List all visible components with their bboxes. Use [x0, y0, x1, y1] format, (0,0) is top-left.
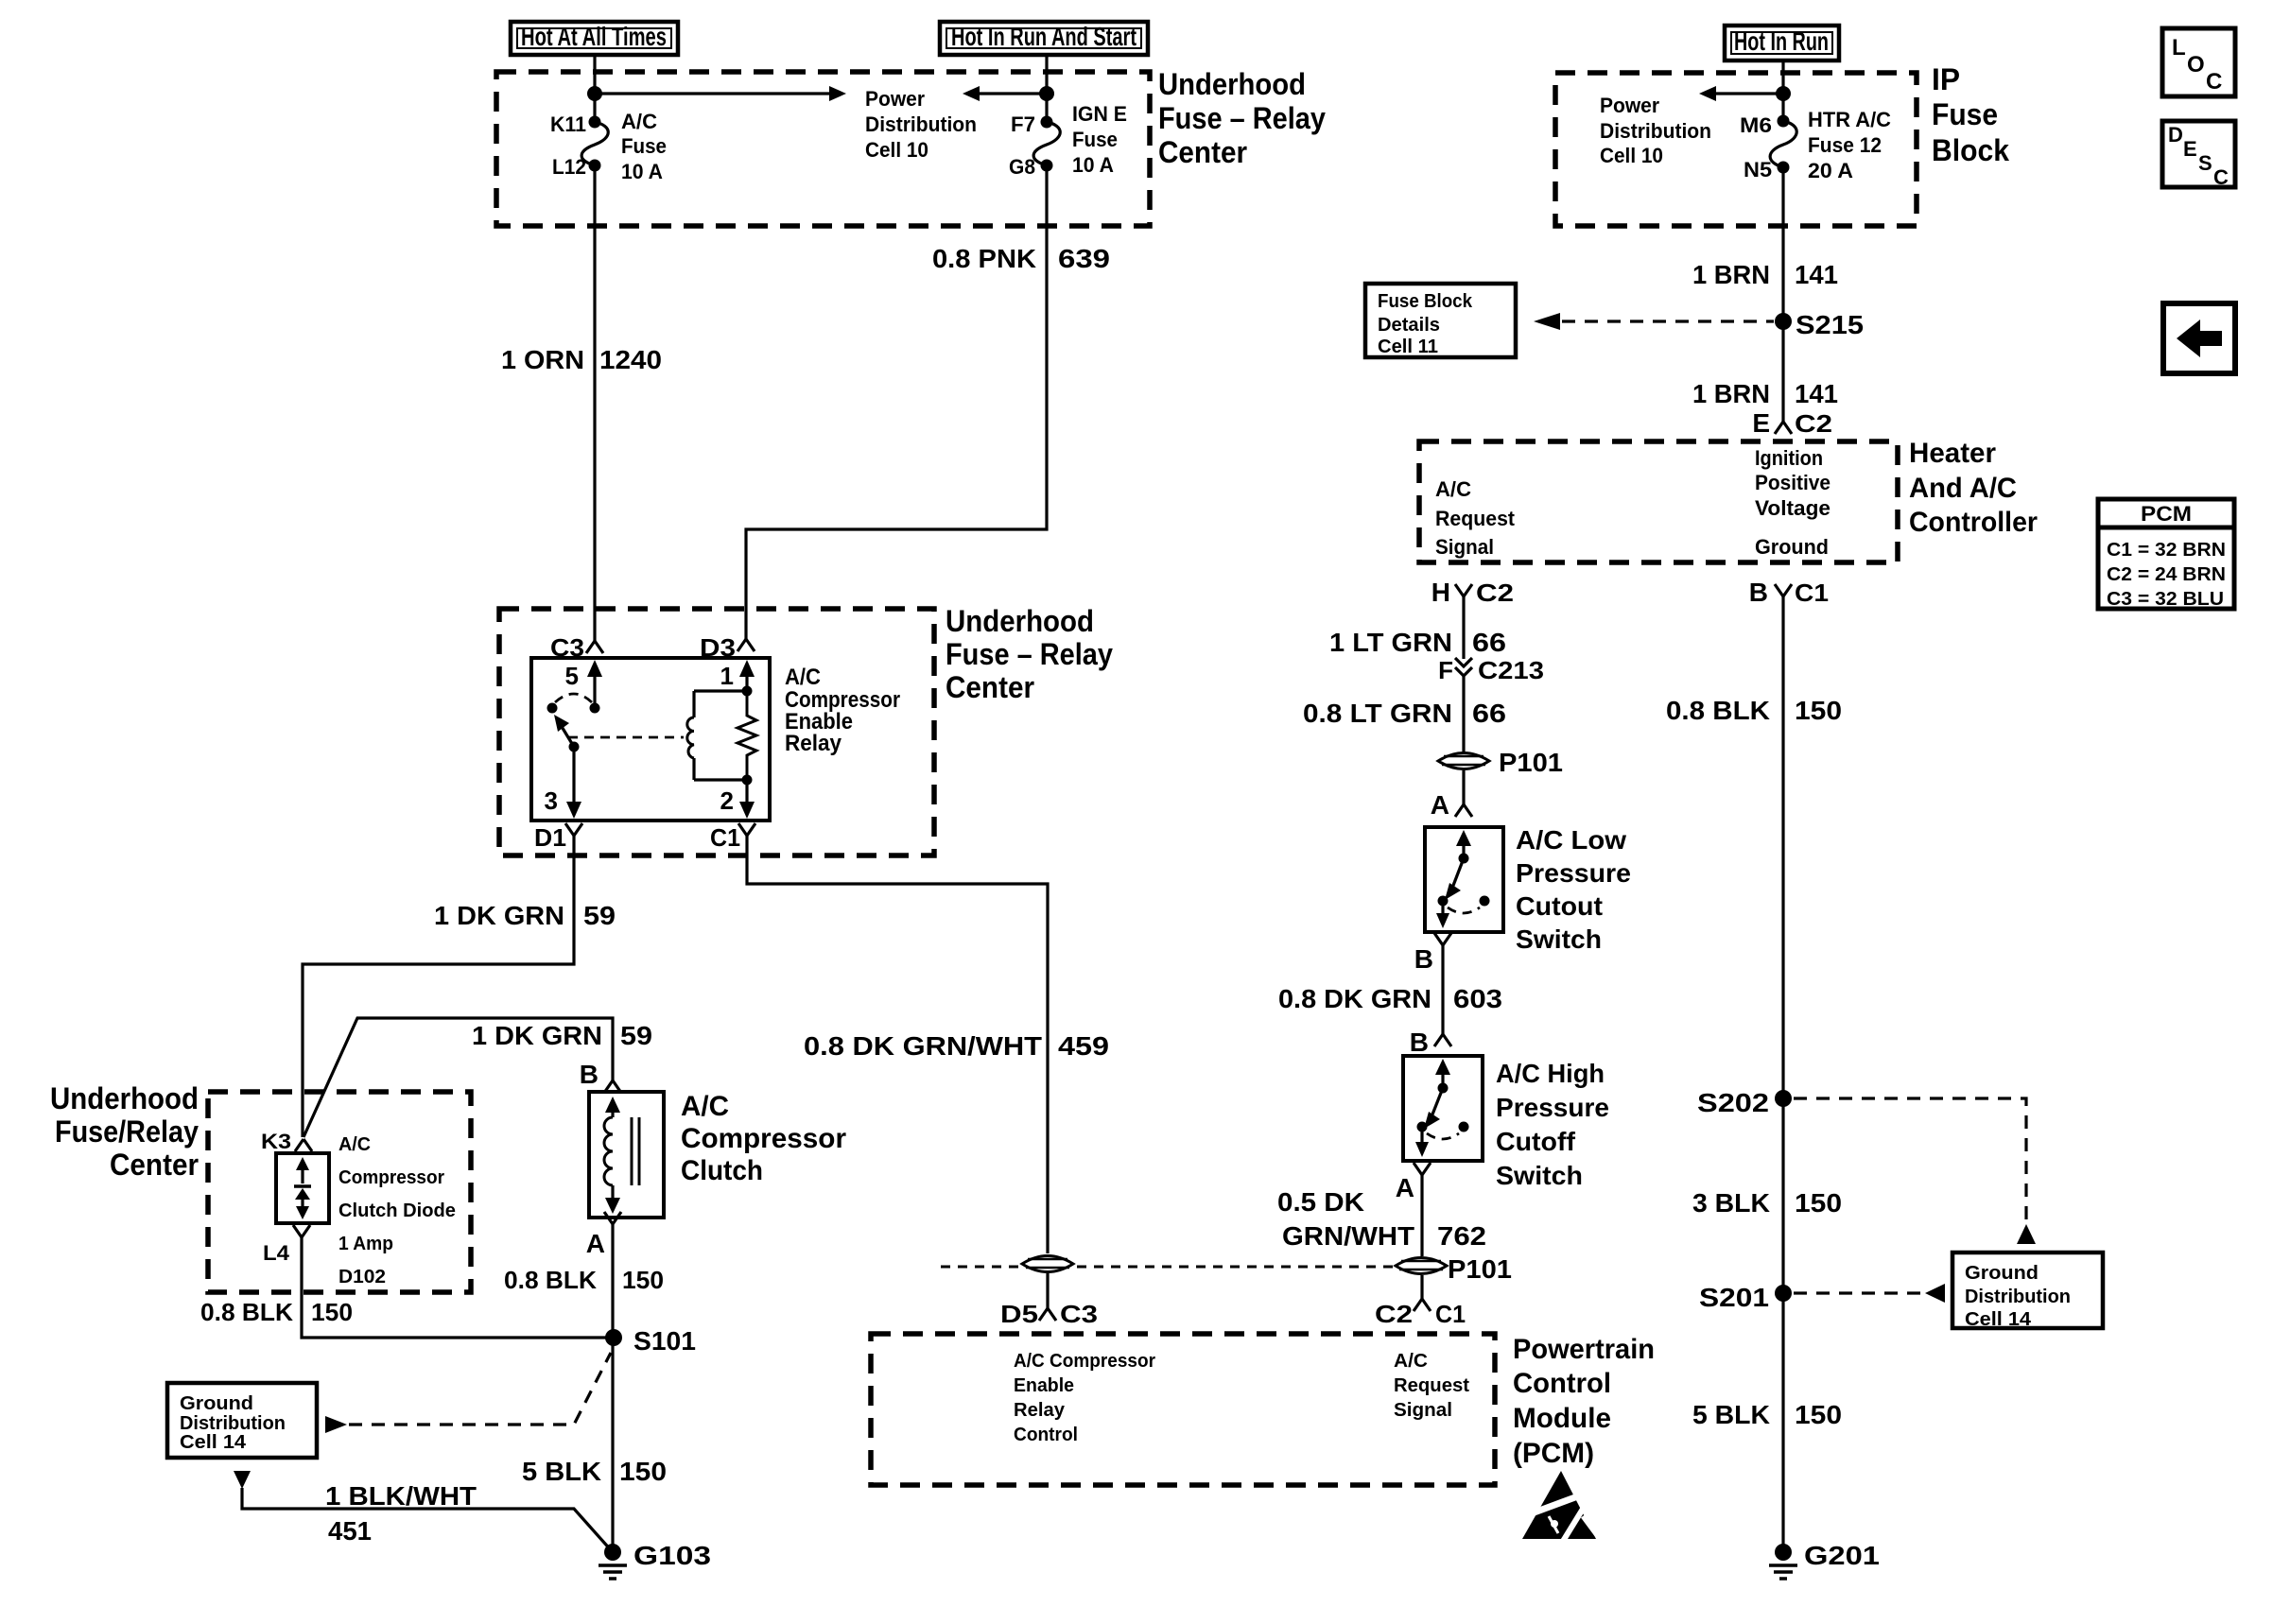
svg-text:E: E [2183, 137, 2197, 161]
svg-text:150: 150 [1795, 1188, 1842, 1218]
ground G201 [1769, 1541, 1880, 1579]
svg-text:Fuse – Relay: Fuse – Relay [1158, 101, 1326, 135]
legend box PCM connectors [2098, 499, 2234, 610]
svg-text:A/C: A/C [681, 1091, 729, 1122]
svg-text:Control: Control [1513, 1368, 1611, 1399]
connector A below clutch [586, 1212, 621, 1258]
wire IGN E feed down from Hot In Run And Start [1045, 55, 1048, 122]
splice S101 [605, 1326, 696, 1356]
relay switch dashed throw arc [555, 694, 592, 702]
wire 0.8 DK GRN/WHT 459 from relay pin C1 down to P101 [747, 836, 1048, 1253]
svg-text:Distribution: Distribution [865, 112, 977, 136]
svg-text:Cell 11: Cell 11 [1378, 337, 1438, 357]
svg-text:A/C High: A/C High [1496, 1059, 1605, 1088]
svg-text:Fuse: Fuse [621, 134, 667, 158]
dashed box Underhood Fuse-Relay Center (power) [496, 72, 1150, 226]
svg-text:D102: D102 [338, 1267, 386, 1287]
svg-text:Relay: Relay [1014, 1400, 1066, 1421]
svg-text:S215: S215 [1796, 310, 1864, 339]
svg-text:10 A: 10 A [1072, 153, 1114, 177]
node junction at IGN E fuse feed [1039, 86, 1054, 101]
label 0.8 LT GRN 66 [1303, 699, 1506, 728]
svg-text:C2: C2 [1476, 579, 1514, 607]
svg-text:B: B [1410, 1028, 1429, 1057]
svg-text:20 A: 20 A [1808, 159, 1853, 182]
label Powertrain Control Module (PCM) [1513, 1334, 1655, 1469]
svg-text:IGN E: IGN E [1072, 102, 1127, 126]
label 0.8 BLK 150 (right) [1666, 696, 1842, 725]
svg-text:B: B [1414, 944, 1433, 974]
svg-text:0.8 BLK: 0.8 BLK [1666, 696, 1770, 725]
svg-text:762: 762 [1437, 1221, 1486, 1251]
dashed box Underhood Fuse-Relay Center (relay) [499, 609, 934, 855]
svg-text:Hot In Run: Hot In Run [1734, 26, 1829, 56]
svg-text:A/C: A/C [338, 1134, 371, 1155]
svg-text:150: 150 [1795, 1400, 1842, 1429]
label Underhood Fuse/Relay Center (left) [50, 1081, 199, 1182]
svg-text:Fuse: Fuse [1932, 97, 1998, 131]
grommet P101 (left lens) [1022, 1256, 1073, 1272]
svg-text:Hot At All Times: Hot At All Times [521, 22, 667, 51]
connector B at high pressure switch [1410, 1028, 1451, 1057]
svg-text:A/C: A/C [1435, 477, 1471, 501]
svg-text:C2 = 24 BRN: C2 = 24 BRN [2107, 564, 2226, 585]
wire arrow left to Power Distribution [963, 86, 1047, 101]
label 1 BRN 141 (upper) [1692, 260, 1838, 289]
svg-text:C213: C213 [1478, 656, 1544, 684]
svg-text:L: L [2172, 35, 2186, 60]
grommet P101 (upper lens) [1438, 748, 1563, 777]
low pressure switch contacts [1436, 830, 1490, 928]
svg-text:150: 150 [619, 1457, 667, 1486]
svg-text:Fuse/Relay: Fuse/Relay [55, 1114, 199, 1149]
relay pin 3 terminal [545, 747, 581, 819]
svg-text:Fuse 12: Fuse 12 [1808, 133, 1882, 157]
arrow from Ground Distribution box right [325, 1416, 347, 1433]
svg-text:K3: K3 [261, 1130, 291, 1153]
svg-text:1 LT GRN: 1 LT GRN [1329, 628, 1452, 657]
label Underhood Fuse-Relay Center (top right) [1158, 67, 1326, 169]
relay coil [687, 691, 747, 780]
svg-text:1240: 1240 [599, 345, 662, 374]
value label HTR A/C Fuse 12 20 A [1808, 108, 1891, 182]
svg-text:C1: C1 [1795, 579, 1829, 607]
dashed box IP Fuse Block [1555, 73, 1917, 226]
svg-text:Fuse – Relay: Fuse – Relay [946, 637, 1113, 671]
node coil top junction [742, 686, 753, 697]
connector B C1 below controller (ground side) [1749, 578, 1829, 607]
svg-text:Signal: Signal [1394, 1400, 1452, 1421]
connector H C2 below controller [1431, 578, 1514, 607]
svg-text:Pressure: Pressure [1496, 1093, 1609, 1122]
svg-text:Distribution: Distribution [180, 1413, 286, 1434]
splice S201 [1699, 1283, 1792, 1312]
svg-text:150: 150 [311, 1298, 353, 1326]
relay switch arm from pin 3 [554, 715, 580, 752]
arrow left of Ground Distribution box (right) [1925, 1284, 1945, 1303]
svg-text:IP: IP [1932, 62, 1960, 96]
svg-text:Heater: Heater [1909, 438, 1996, 469]
arrow below Ground Distribution box [234, 1471, 251, 1489]
svg-text:Details: Details [1378, 315, 1440, 336]
node junction at HTR A/C fuse feed [1776, 86, 1791, 101]
svg-text:Power: Power [1600, 94, 1659, 117]
fuse A/C Fuse 10 A (K11-L12) [581, 116, 608, 172]
label A/C Compressor Enable Relay [785, 665, 900, 756]
svg-text:1 DK GRN: 1 DK GRN [434, 901, 564, 930]
label 0.5 DK GRN/WHT 762 [1277, 1187, 1486, 1251]
wire stub from lens to connector D5 C3 [1046, 1273, 1049, 1308]
box LOC [2162, 28, 2235, 96]
svg-text:Distribution: Distribution [1965, 1287, 2071, 1307]
svg-text:5: 5 [565, 662, 579, 690]
wire 1 ORN 1240 from L12 down to relay pin C3 [593, 165, 596, 641]
dashed box Heater And A/C Controller [1419, 441, 1898, 562]
svg-text:Voltage: Voltage [1755, 496, 1831, 520]
label 3 BLK 150 [1692, 1188, 1842, 1218]
svg-text:Fuse Block: Fuse Block [1378, 291, 1473, 312]
svg-text:PCM: PCM [2141, 502, 2192, 526]
svg-text:Positive: Positive [1755, 471, 1831, 494]
connector L4 below diode [263, 1225, 310, 1265]
svg-text:A/C: A/C [621, 110, 657, 133]
svg-text:Cell 14: Cell 14 [1965, 1309, 2032, 1330]
svg-text:Block: Block [1932, 133, 2009, 167]
label 0.8 BLK 150 (left) [200, 1298, 353, 1326]
svg-text:0.8 BLK: 0.8 BLK [504, 1266, 597, 1294]
svg-text:Compressor: Compressor [681, 1123, 846, 1154]
connector B at clutch [580, 1060, 621, 1093]
svg-text:Ground: Ground [1755, 535, 1829, 559]
svg-text:S202: S202 [1697, 1088, 1769, 1117]
svg-text:C3: C3 [1060, 1300, 1098, 1328]
svg-text:F: F [1438, 656, 1453, 684]
box Fuse Block Details Cell 11 [1365, 284, 1516, 357]
svg-text:GRN/WHT: GRN/WHT [1282, 1221, 1414, 1251]
svg-text:Powertrain: Powertrain [1513, 1334, 1655, 1365]
svg-text:1 BRN: 1 BRN [1692, 379, 1770, 408]
svg-text:Clutch Diode: Clutch Diode [338, 1201, 456, 1221]
svg-text:141: 141 [1795, 379, 1838, 408]
svg-text:(PCM): (PCM) [1513, 1438, 1594, 1469]
svg-text:F7: F7 [1011, 112, 1035, 136]
svg-text:G201: G201 [1804, 1541, 1880, 1570]
label A/C Compressor Clutch Diode 1 Amp D102 [338, 1134, 456, 1287]
header box "Hot At All Times" [511, 22, 678, 55]
relay mechanical dashed link [568, 736, 684, 739]
svg-text:A/C Low: A/C Low [1516, 825, 1626, 855]
wire from P101 to connector A [1462, 770, 1465, 804]
svg-text:C1 = 32 BRN: C1 = 32 BRN [2107, 540, 2226, 561]
svg-text:Hot In Run And Start: Hot In Run And Start [951, 22, 1136, 51]
svg-text:3: 3 [545, 786, 558, 815]
svg-text:Fuse: Fuse [1072, 128, 1118, 151]
svg-text:C2: C2 [1795, 409, 1832, 438]
wire 1 DK GRN 59 branch from K3 to clutch B [304, 1018, 613, 1137]
svg-text:M6: M6 [1740, 113, 1772, 137]
svg-text:S: S [2198, 151, 2212, 175]
svg-text:P101: P101 [1499, 748, 1563, 777]
svg-text:1 BLK/WHT: 1 BLK/WHT [325, 1481, 477, 1511]
connector D3 at relay [700, 633, 755, 662]
label Underhood Fuse-Relay Center (relay) [946, 604, 1113, 704]
label A/C High Pressure Cutoff Switch [1496, 1059, 1609, 1190]
svg-text:1: 1 [720, 662, 734, 690]
svg-text:G8: G8 [1009, 155, 1035, 179]
svg-text:S201: S201 [1699, 1283, 1769, 1312]
svg-text:Controller: Controller [1909, 507, 2038, 538]
arrow into Fuse Block Details [1534, 313, 1560, 330]
wire 0.5 DK GRN/WHT 762 to P101 [1420, 1175, 1423, 1256]
svg-text:Cell 10: Cell 10 [1600, 144, 1663, 167]
svg-text:N5: N5 [1744, 158, 1772, 181]
svg-text:Ground: Ground [180, 1393, 253, 1414]
wire 0.8 BLK 150 from clutch A to S101 and G103 [611, 1224, 614, 1552]
A/C High Pressure Cutoff Switch box [1403, 1056, 1483, 1161]
box back arrow [2163, 303, 2235, 373]
svg-text:Clutch: Clutch [681, 1155, 763, 1186]
svg-text:Cell 14: Cell 14 [180, 1432, 247, 1453]
relay pin 5 terminal [565, 660, 602, 714]
svg-text:G103: G103 [633, 1541, 711, 1570]
high pressure switch contacts [1415, 1059, 1469, 1157]
wire 0.8 PNK 639 from G8 down and over to relay pin D3 [746, 165, 1047, 639]
svg-text:C2: C2 [1375, 1300, 1413, 1328]
svg-text:C1: C1 [710, 823, 740, 852]
connector F C213 inline [1438, 656, 1544, 684]
svg-text:Request: Request [1394, 1375, 1469, 1396]
relay K1 A/C Compressor Enable Relay box [531, 658, 770, 821]
svg-text:Ignition: Ignition [1755, 446, 1823, 470]
svg-text:C: C [2213, 165, 2229, 189]
connector C3 at relay [550, 633, 603, 662]
value label A/C Fuse 10 A [621, 110, 667, 183]
label Heater And A/C Controller [1909, 438, 2038, 538]
svg-text:Compressor: Compressor [338, 1167, 444, 1188]
wire ORN from Hot At All Times into fuse box [593, 55, 596, 122]
label 0.8 BLK 150 (clutch) [504, 1266, 664, 1294]
splice S215 [1775, 310, 1864, 339]
svg-text:66: 66 [1472, 628, 1506, 657]
wire 0.8 BLK 150 from L4 to S101 [302, 1237, 614, 1338]
svg-text:Switch: Switch [1516, 924, 1602, 954]
label 5 BLK 150 (right) [1692, 1400, 1842, 1429]
svg-text:1 Amp: 1 Amp [338, 1234, 393, 1254]
svg-text:150: 150 [1795, 696, 1842, 725]
label 1 DK GRN 59 (upper) [434, 901, 616, 930]
relay pin 2 terminal [720, 780, 755, 819]
grommet P101 (right lens) [1396, 1258, 1447, 1274]
svg-text:1 ORN: 1 ORN [501, 345, 584, 374]
ground G103 [599, 1541, 711, 1579]
svg-text:P101: P101 [1448, 1254, 1512, 1284]
label IP Fuse Block [1932, 62, 2009, 167]
dashed box Powertrain Control Module (PCM) [871, 1334, 1495, 1485]
dashed reference from S201 to Ground Distribution [1794, 1291, 1924, 1294]
svg-text:Cutoff: Cutoff [1496, 1127, 1576, 1156]
label 0.8 PNK 639 [932, 244, 1110, 273]
box Ground Distribution Cell 14 (left) [167, 1383, 317, 1458]
connector D5 C3 at PCM [1000, 1300, 1098, 1328]
label 5 BLK 150 (left) [522, 1457, 667, 1486]
svg-text:0.8 PNK: 0.8 PNK [932, 244, 1036, 273]
svg-text:A: A [586, 1229, 605, 1258]
svg-text:150: 150 [622, 1266, 664, 1294]
label 1 ORN 1240 [501, 345, 662, 374]
node junction at A/C fuse feed [587, 86, 602, 101]
svg-text:E: E [1752, 408, 1770, 438]
svg-text:A: A [1431, 790, 1449, 820]
svg-text:A/C: A/C [785, 665, 821, 690]
svg-text:5 BLK: 5 BLK [522, 1457, 601, 1486]
label A/C Compressor Clutch [681, 1091, 846, 1186]
svg-text:Pressure: Pressure [1516, 858, 1631, 888]
dashed box Underhood Fuse/Relay Center (diode) [208, 1092, 471, 1292]
svg-text:K11: K11 [550, 112, 586, 136]
wire 1 BRN 141 from N5 to S215 to E C2 [1781, 167, 1784, 422]
svg-text:Power: Power [865, 87, 925, 111]
label 1 DK GRN 59 (lower) [472, 1021, 652, 1050]
svg-text:Signal: Signal [1435, 535, 1494, 559]
wire 1 BLK/WHT 451 to G103 [242, 1488, 613, 1552]
label 0.8 DK GRN 603 [1278, 984, 1502, 1013]
A/C Low Pressure Cutout Switch box [1425, 827, 1503, 932]
fuse HTR A/C Fuse 12 20 A (M6-N5) [1770, 115, 1796, 174]
svg-text:Ground: Ground [1965, 1263, 2039, 1284]
connector A at low pressure switch [1431, 790, 1472, 820]
label A/C Compressor Enable Relay Control [1014, 1351, 1155, 1445]
svg-text:B: B [580, 1060, 599, 1089]
svg-text:S101: S101 [633, 1326, 696, 1356]
connector C2 C1 at PCM [1375, 1299, 1466, 1328]
connector A below high pressure switch [1396, 1163, 1431, 1202]
svg-text:0.5 DK: 0.5 DK [1277, 1187, 1364, 1217]
svg-text:1 BRN: 1 BRN [1692, 260, 1770, 289]
svg-text:H: H [1431, 578, 1450, 607]
relay pin 1 terminal [720, 660, 755, 691]
svg-text:59: 59 [583, 901, 616, 930]
ESD sensitivity symbol [1522, 1471, 1602, 1543]
svg-text:451: 451 [328, 1516, 372, 1546]
value label IGN E Fuse 10 A [1072, 102, 1127, 177]
svg-text:5 BLK: 5 BLK [1692, 1400, 1770, 1429]
svg-text:Enable: Enable [1014, 1375, 1074, 1396]
fuse IGN E Fuse 10 A (F7-G8) [1033, 116, 1060, 172]
svg-text:A/C: A/C [1394, 1351, 1428, 1372]
wire 1 LT GRN 66 from H to C213 [1462, 596, 1465, 659]
A/C Compressor Clutch box [589, 1092, 664, 1218]
connector E C2 at controller [1752, 408, 1832, 438]
label 1 BLK/WHT 451 [325, 1481, 477, 1546]
svg-text:59: 59 [620, 1021, 652, 1050]
label Power Distribution Cell 10 [865, 87, 977, 162]
svg-text:A: A [1396, 1173, 1414, 1202]
label 1 BRN 141 (lower) [1692, 379, 1838, 408]
connector K3 at diode [261, 1130, 312, 1153]
arrow above Ground Distribution box (right) [2017, 1224, 2036, 1244]
svg-text:B: B [1749, 578, 1768, 607]
label Ignition Positive Voltage / Ground [1755, 446, 1831, 559]
svg-text:C3 = 32 BLU: C3 = 32 BLU [2107, 589, 2224, 610]
svg-text:0.8 LT GRN: 0.8 LT GRN [1303, 699, 1452, 728]
svg-text:Center: Center [946, 670, 1034, 704]
svg-text:Center: Center [1158, 135, 1247, 169]
svg-text:0.8 BLK: 0.8 BLK [200, 1298, 293, 1326]
svg-text:141: 141 [1795, 260, 1838, 289]
dashed reference line to S101 [349, 1353, 611, 1425]
box Ground Distribution Cell 14 (right) [1952, 1253, 2103, 1330]
wire 0.8 DK GRN 603 [1441, 945, 1444, 1034]
svg-text:L12: L12 [552, 155, 586, 179]
node coil bottom junction [742, 775, 753, 786]
svg-text:Underhood: Underhood [1158, 67, 1306, 101]
relay internal resistor [737, 691, 756, 780]
label 1 LT GRN 66 [1329, 628, 1506, 657]
svg-text:Cutout: Cutout [1516, 891, 1603, 921]
svg-text:Cell 10: Cell 10 [865, 138, 928, 162]
wire arrow left to Power Distribution (IP) [1699, 86, 1783, 101]
label A/C Request Signal (controller) [1435, 477, 1516, 559]
dashed reference from S202 to Ground Distribution [1794, 1098, 2026, 1226]
svg-text:And A/C: And A/C [1909, 473, 2017, 504]
svg-text:D: D [2168, 123, 2183, 147]
diode D102 symbol [294, 1157, 311, 1219]
svg-text:Underhood: Underhood [50, 1081, 199, 1115]
svg-text:L4: L4 [263, 1241, 290, 1265]
connector D1 below relay [534, 823, 582, 852]
relay switch fixed contact (left) [547, 703, 558, 714]
svg-text:O: O [2187, 52, 2205, 78]
svg-text:10 A: 10 A [621, 160, 663, 183]
wire arrow to Power Distribution [595, 86, 846, 101]
svg-text:Module: Module [1513, 1403, 1611, 1434]
svg-text:Request: Request [1435, 507, 1516, 530]
svg-text:C1: C1 [1435, 1300, 1466, 1328]
header box "Hot In Run" [1725, 26, 1839, 60]
wire stub from lens to connector C2 C1 [1420, 1275, 1423, 1299]
diode D102 box [276, 1153, 329, 1223]
svg-text:639: 639 [1058, 244, 1110, 273]
connector C1 below relay [710, 823, 755, 852]
label A/C Request Signal (PCM) [1394, 1351, 1469, 1421]
wire Hot In Run feed down [1781, 60, 1784, 121]
svg-text:Distribution: Distribution [1600, 119, 1711, 143]
header box "Hot In Run And Start" [940, 22, 1148, 55]
svg-text:2: 2 [720, 786, 734, 815]
svg-text:HTR A/C: HTR A/C [1808, 108, 1891, 131]
svg-text:C: C [2206, 69, 2222, 95]
svg-text:459: 459 [1058, 1031, 1109, 1061]
svg-text:A/C Compressor: A/C Compressor [1014, 1351, 1155, 1372]
splice S202 [1697, 1088, 1792, 1117]
svg-text:603: 603 [1453, 984, 1502, 1013]
svg-text:Control: Control [1014, 1425, 1078, 1445]
svg-text:Relay: Relay [785, 731, 842, 756]
svg-text:Switch: Switch [1496, 1161, 1583, 1190]
svg-text:Underhood: Underhood [946, 604, 1094, 638]
box DESC [2162, 121, 2235, 189]
wire 0.8 BLK 150 ground wire down to G201 [1781, 596, 1784, 1552]
label A/C Low Pressure Cutout Switch [1516, 825, 1631, 954]
svg-text:66: 66 [1472, 699, 1506, 728]
dashed reference line from S215 [1562, 320, 1774, 322]
svg-text:1 DK GRN: 1 DK GRN [472, 1021, 602, 1050]
clutch coil symbol [604, 1097, 639, 1214]
dashed pass-through reference line P101 [941, 1266, 1399, 1269]
wire 1 DK GRN 59 from relay pin D1 [303, 836, 574, 1137]
wire 0.8 LT GRN 66 from C213 to P101 [1462, 676, 1465, 752]
label Power Distribution Cell 10 (IP) [1600, 94, 1711, 167]
